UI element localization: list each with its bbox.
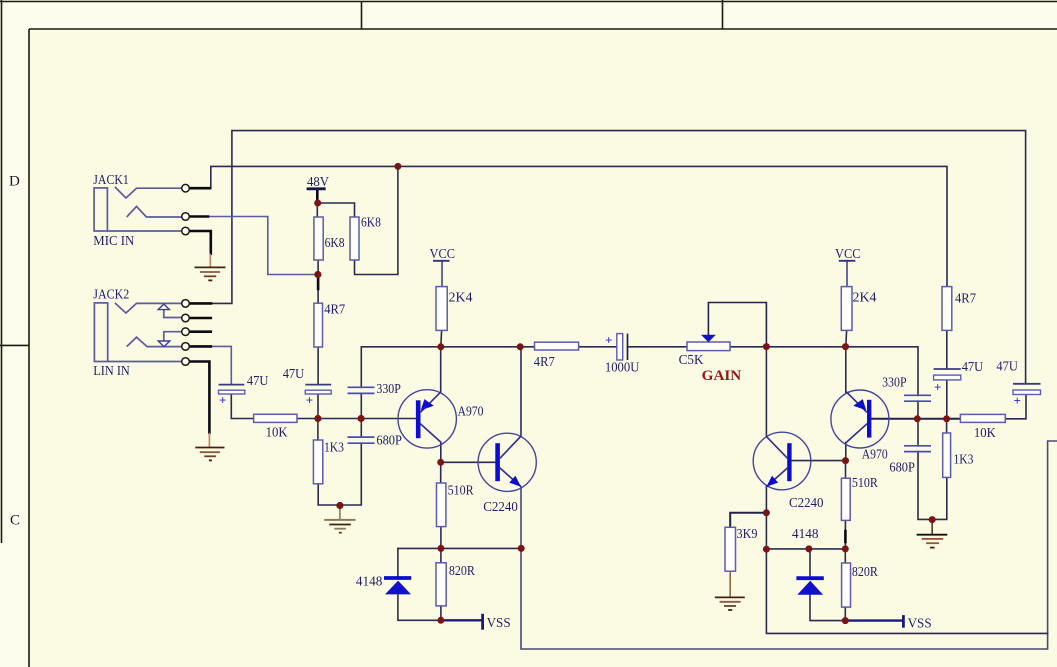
svg-text:4148: 4148 — [356, 575, 383, 590]
svg-text:GAIN: GAIN — [702, 368, 742, 384]
wire A970 right collector drop — [845, 443, 847, 461]
resistor 2K4 right — [841, 287, 852, 331]
wire C2240 collector riser — [520, 347, 522, 437]
pin stubs — [189, 188, 845, 542]
node 47U right — [943, 415, 950, 422]
node A970 left collector — [437, 459, 444, 466]
wire node to 4R7 top — [317, 289, 319, 303]
wire left low row y=548.4 — [398, 547, 521, 549]
connector JACK2 — [94, 303, 181, 362]
svg-text:4148: 4148 — [792, 527, 819, 542]
power 48V — [307, 187, 326, 190]
wire JACK1 sleeve pin to ground — [189, 231, 211, 254]
svg-text:MIC IN: MIC IN — [93, 234, 134, 249]
transistor C2240 right — [753, 432, 811, 490]
wire JACK1 tip pin — [189, 187, 210, 190]
node 510R right — [842, 545, 849, 552]
wire JACK1 ring pin — [189, 215, 208, 218]
capacitor 680P right — [904, 446, 931, 452]
svg-text:6K8: 6K8 — [361, 216, 381, 231]
ground LIN IN — [195, 433, 224, 461]
resistor 2K4 left — [436, 287, 447, 331]
capacitor 330P left — [348, 387, 375, 393]
svg-text:1000U: 1000U — [605, 361, 640, 376]
wire 3K9 link — [730, 513, 766, 528]
svg-text:LIN IN: LIN IN — [93, 364, 130, 379]
wire A970 to C2240 base — [441, 461, 496, 463]
wire VCC left stem — [441, 261, 443, 287]
node 2K4 right — [842, 343, 849, 350]
svg-text:A970: A970 — [862, 448, 888, 463]
node diode right — [805, 545, 812, 552]
svg-text:VCC: VCC — [430, 247, 456, 262]
wire JACK2 ring pin — [189, 345, 211, 348]
node emitter right — [763, 546, 770, 553]
svg-text:C2240: C2240 — [483, 500, 518, 515]
wire diode 4148 left column — [398, 548, 441, 620]
wire 510R right bottom pin — [844, 531, 847, 542]
capacitor 1000U — [605, 333, 628, 361]
svg-text:4R7: 4R7 — [955, 292, 976, 307]
svg-text:820R: 820R — [852, 565, 879, 580]
wire right low row y=548.9 — [766, 548, 845, 550]
resistor 1K3 right — [943, 433, 951, 477]
wire A970 collector drop — [440, 443, 442, 463]
wire right 330P 680P column x=918 — [918, 401, 947, 519]
wire 820R right stubs — [844, 549, 846, 621]
svg-text:JACK2: JACK2 — [93, 288, 129, 303]
resistor 4R7 left — [314, 303, 323, 347]
power VSS right — [902, 615, 905, 628]
wire C2240 right collector riser — [765, 347, 767, 437]
node 3K9 — [763, 509, 770, 516]
node 330P right — [914, 415, 921, 422]
capacitor 330P right — [904, 395, 931, 401]
transistor C2240 left — [478, 433, 536, 491]
power VCC right — [839, 260, 856, 262]
node base left — [314, 415, 321, 422]
wire JACK2 switch pin — [189, 317, 211, 320]
node 48V — [314, 200, 321, 207]
wire 510R right stubs — [844, 461, 846, 549]
wire 1K3 top stub — [317, 419, 319, 441]
capacitor 47U series left — [305, 385, 331, 408]
capacitor 47U series right — [934, 369, 961, 395]
resistor 3K9 — [725, 527, 736, 571]
svg-text:1K3: 1K3 — [324, 441, 344, 456]
resistor 820R right — [842, 563, 851, 607]
wire 2K4 left bottom — [440, 330, 443, 346]
node 510R left — [437, 545, 444, 552]
wire JACK2 sleeve pin to ground — [189, 362, 209, 433]
JACK2 switch arrow down — [158, 341, 170, 347]
resistor 820R left — [436, 563, 446, 606]
svg-text:6K8: 6K8 — [325, 236, 345, 251]
svg-text:48V: 48V — [307, 175, 329, 190]
node ground left amp — [336, 502, 343, 509]
resistor 1K3 left — [313, 440, 322, 484]
svg-text:4R7: 4R7 — [324, 303, 345, 318]
wire 2K4 right bottom — [845, 330, 848, 346]
potentiometer C5K body — [687, 342, 730, 351]
wire diode 4148 right column — [810, 549, 845, 621]
svg-text:+: + — [306, 393, 313, 408]
wire 4R7 bottom to 47U cap — [317, 347, 319, 385]
wire mic hot line y=166 — [211, 166, 947, 286]
wire base node row y=418.5 — [297, 418, 416, 420]
svg-text:680P: 680P — [376, 434, 402, 449]
wire VSS left link — [441, 619, 482, 621]
svg-text:JACK1: JACK1 — [93, 173, 129, 188]
svg-text:10K: 10K — [974, 426, 996, 441]
wire pot wiper loop — [708, 303, 766, 347]
node hot phantom — [394, 163, 401, 170]
node VSS left — [437, 617, 444, 624]
transistor A970 right — [831, 390, 889, 448]
svg-text:47U: 47U — [247, 374, 269, 389]
svg-text:A970: A970 — [458, 405, 484, 420]
wire phantom node pin stub — [317, 277, 320, 290]
wire A970 right emitter riser — [845, 347, 847, 393]
wire LIN ring to 47U cap — [211, 346, 232, 384]
ground right amp — [917, 520, 948, 548]
svg-text:C: C — [10, 513, 20, 529]
wire VSS right link — [845, 619, 902, 621]
svg-text:10K: 10K — [266, 426, 288, 441]
node VSS right — [842, 617, 849, 624]
svg-text:4R7: 4R7 — [534, 355, 555, 370]
resistor 6K8 left — [314, 217, 323, 260]
svg-text:VSS: VSS — [487, 616, 511, 631]
wire 48V to 6K8 pair — [317, 189, 354, 217]
svg-text:330P: 330P — [882, 376, 907, 391]
svg-text:510R: 510R — [448, 484, 475, 499]
ground left amp — [324, 506, 355, 533]
wire 10K right to 47U — [1005, 395, 1026, 419]
capacitor 47U output right — [1013, 384, 1041, 408]
svg-text:C2240: C2240 — [789, 496, 824, 511]
svg-text:47U: 47U — [996, 360, 1018, 375]
JACK2 switch arrow up — [158, 304, 169, 310]
resistor 510R right — [841, 478, 850, 520]
wire node to node right — [917, 418, 960, 420]
capacitor 680P left — [348, 437, 375, 443]
wire 47U cap to base node — [317, 394, 319, 419]
wire C2240 emitter drop and bottom out line — [521, 441, 1057, 649]
svg-text:330P: 330P — [376, 382, 401, 397]
resistor 510R left — [437, 483, 446, 527]
resistor 10K left — [254, 414, 297, 422]
wire A970 emitter riser — [440, 347, 442, 393]
node C2240 left collector — [517, 343, 524, 350]
resistor 10K right — [960, 414, 1005, 422]
svg-text:+: + — [219, 393, 226, 408]
node emitter left — [518, 545, 525, 552]
svg-text:510R: 510R — [852, 476, 879, 491]
svg-text:820R: 820R — [449, 564, 476, 579]
JACK1 pins — [182, 184, 190, 234]
capacitor 47U input left — [219, 385, 245, 408]
wire 6K8 left bottom to node — [317, 260, 319, 277]
wire VCC right stem — [846, 261, 848, 287]
resistor 4R7 horizontal — [535, 342, 579, 350]
svg-text:D: D — [9, 174, 20, 190]
wire JACK2 switch pin 2 — [189, 330, 211, 333]
diode 4148 left — [384, 578, 411, 594]
node pot out — [763, 343, 770, 350]
svg-text:+: + — [934, 380, 941, 395]
wire main signal line y=346.8 — [361, 347, 918, 396]
wire C2240 right base link — [792, 460, 846, 462]
wire C2240 right emitter drop and out line — [766, 487, 1047, 634]
node 2K4 left — [437, 343, 444, 350]
JACK2 pins — [182, 300, 190, 366]
node ring phantom — [314, 271, 321, 278]
svg-text:+: + — [605, 333, 612, 348]
diode 4148 right — [796, 578, 823, 595]
svg-text:47U: 47U — [283, 367, 305, 382]
power VSS left — [481, 614, 484, 630]
wire ring line to phantom node — [208, 217, 318, 275]
node ground right amp — [929, 516, 936, 523]
wire right 47U column x=946.8 — [946, 330, 948, 433]
wire 47U to 10K left — [231, 394, 253, 419]
power VCC left — [433, 260, 450, 262]
wire 48V pin stub — [316, 190, 319, 202]
wire top feedback line JACK2 tip to 47U right — [211, 131, 1026, 384]
wire 330P 680P column x=361.3 — [318, 347, 361, 505]
potentiometer C5K wiper arrow — [701, 335, 716, 342]
svg-text:47U: 47U — [962, 360, 984, 375]
ground MIC IN — [195, 254, 226, 281]
node 330P left — [358, 415, 365, 422]
svg-text:3K9: 3K9 — [737, 527, 758, 542]
svg-text:C5K: C5K — [679, 353, 704, 368]
svg-text:VSS: VSS — [908, 617, 932, 632]
wire JACK2 tip pin — [189, 302, 211, 305]
ground 3K9 — [715, 571, 745, 610]
resistor 6K8 right — [350, 217, 359, 260]
wire A970 right base to node — [871, 418, 917, 420]
svg-text:1K3: 1K3 — [954, 453, 974, 468]
wire 820R stubs — [440, 548, 442, 620]
svg-text:2K4: 2K4 — [853, 291, 877, 306]
node A970 right collector — [842, 457, 849, 464]
svg-text:VCC: VCC — [835, 247, 861, 262]
connector JACK1 — [94, 187, 182, 231]
resistor 4R7 right — [942, 287, 952, 331]
wire 510R stubs — [440, 462, 442, 548]
svg-text:680P: 680P — [889, 461, 915, 476]
svg-text:2K4: 2K4 — [449, 291, 473, 306]
transistor A970 left — [398, 390, 456, 448]
wire phantom right 6K8 to hot line — [355, 166, 398, 274]
svg-text:+: + — [1014, 393, 1021, 408]
